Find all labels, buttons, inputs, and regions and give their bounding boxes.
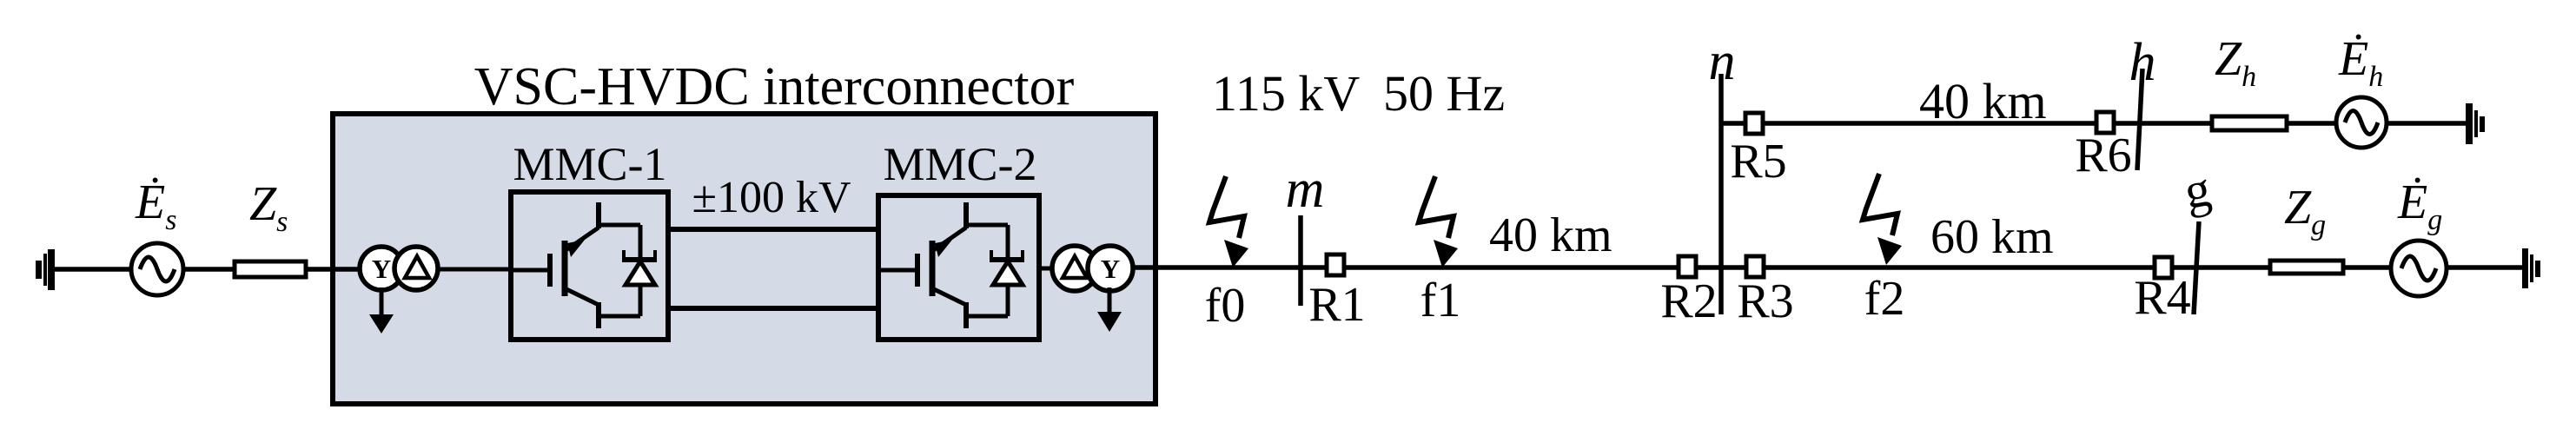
AC source Es bbox=[131, 243, 183, 295]
fault bolt f0 bbox=[1209, 176, 1248, 268]
bus g tick bbox=[2194, 221, 2199, 314]
relay R4 bbox=[2155, 257, 2172, 278]
ground (lower right, behind source Eg) bbox=[2522, 248, 2540, 288]
svg-text:Ėg: Ėg bbox=[2397, 175, 2442, 236]
svg-text:R3: R3 bbox=[1737, 274, 1793, 328]
transformer T2 (delta-Y) bbox=[1052, 246, 1133, 291]
svg-text:g: g bbox=[2180, 160, 2215, 220]
wire: DC link positive pole bbox=[669, 227, 877, 232]
svg-text:Ėh: Ėh bbox=[2338, 32, 2383, 93]
impedance Zs bbox=[235, 261, 306, 277]
impedance Zg bbox=[2270, 261, 2343, 274]
svg-text:R2: R2 bbox=[1660, 274, 1717, 328]
svg-text:f1: f1 bbox=[1420, 274, 1461, 327]
svg-text:40 km: 40 km bbox=[1919, 73, 2047, 129]
svg-text:Zs: Zs bbox=[249, 177, 288, 238]
impedance Zh bbox=[2212, 116, 2287, 130]
relay R3 bbox=[1746, 256, 1764, 277]
svg-text:R4: R4 bbox=[2134, 271, 2190, 325]
svg-text:Y: Y bbox=[372, 254, 391, 284]
svg-text:MMC-2: MMC-2 bbox=[883, 138, 1036, 190]
wire: MMC-2 to transformer T2 bbox=[1039, 267, 1060, 271]
svg-text:±100 kV: ±100 kV bbox=[692, 173, 851, 222]
relay R1 bbox=[1327, 254, 1344, 275]
ground arrow of T2 star point bbox=[1097, 287, 1122, 332]
IGBT Q2 inside MMC-2 bbox=[878, 202, 1008, 328]
svg-text:50 Hz: 50 Hz bbox=[1383, 65, 1505, 122]
svg-text:Zh: Zh bbox=[2215, 32, 2256, 93]
converter MMC-2 box bbox=[878, 195, 1039, 340]
antiparallel diode D2 bbox=[990, 225, 1024, 316]
fault bolt f1 bbox=[1419, 176, 1458, 268]
ground (upper right, behind source Eh) bbox=[2466, 103, 2485, 144]
svg-text:40 km: 40 km bbox=[1489, 208, 1612, 262]
AC source Eg bbox=[2391, 241, 2447, 296]
svg-text:MMC-1: MMC-1 bbox=[513, 138, 666, 190]
ground (left, behind source Es) bbox=[36, 249, 55, 290]
wire: main 115 kV AC line from T2 to ground of source Eg bbox=[1132, 265, 2522, 270]
svg-text:VSC-HVDC interconnector: VSC-HVDC interconnector bbox=[474, 57, 1075, 116]
fault bolt f2 bbox=[1863, 174, 1902, 265]
svg-text:n: n bbox=[1709, 32, 1736, 91]
antiparallel diode D1 bbox=[622, 225, 657, 316]
transformer T1 (Y-delta) bbox=[360, 247, 438, 290]
svg-text:m: m bbox=[1286, 160, 1325, 219]
svg-text:f0: f0 bbox=[1205, 279, 1246, 333]
bus m tick bbox=[1298, 215, 1303, 306]
relay R6 bbox=[2096, 112, 2114, 133]
svg-text:115 kV: 115 kV bbox=[1212, 65, 1360, 122]
IGBT Q1 inside MMC-1 bbox=[511, 202, 640, 328]
relay R5 bbox=[1745, 113, 1763, 134]
bus n (vertical busbar) bbox=[1718, 74, 1724, 314]
svg-text:Ės: Ės bbox=[135, 175, 176, 236]
AC source Eh bbox=[2336, 97, 2387, 148]
wire: upper branch line from bus n to ground of source Eh bbox=[1721, 121, 2466, 126]
svg-text:Y: Y bbox=[1101, 254, 1120, 284]
svg-text:60 km: 60 km bbox=[1930, 210, 2054, 264]
converter MMC-1 box bbox=[511, 192, 668, 340]
svg-text:R1: R1 bbox=[1308, 278, 1365, 332]
svg-text:R5: R5 bbox=[1730, 135, 1786, 188]
ground arrow of T1 star point bbox=[369, 287, 394, 334]
svg-text:f2: f2 bbox=[1864, 272, 1905, 326]
svg-text:R6: R6 bbox=[2075, 129, 2131, 182]
svg-text:h: h bbox=[2129, 33, 2156, 92]
bus h tick bbox=[2137, 69, 2142, 170]
wire: T1 to MMC-1 gate lead bbox=[437, 268, 513, 272]
relay R2 bbox=[1679, 256, 1696, 277]
wire: left ground to transformer T1 bbox=[54, 267, 365, 272]
VSC-HVDC interconnector enclosure box bbox=[333, 114, 1156, 404]
wire: DC link negative pole bbox=[669, 306, 877, 311]
svg-text:Zg: Zg bbox=[2284, 181, 2326, 241]
